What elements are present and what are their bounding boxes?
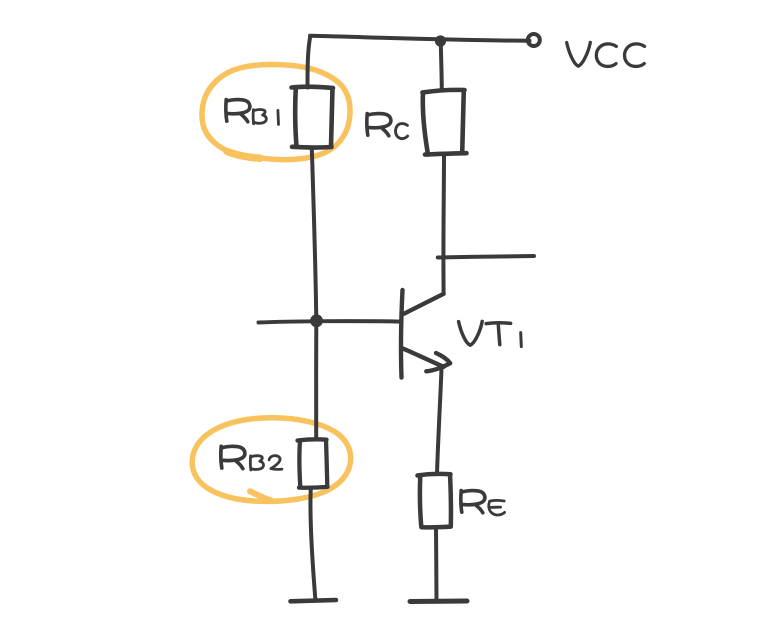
ground (left): [291, 600, 337, 601]
label VCC: [567, 42, 645, 66]
label VT1: [459, 321, 522, 346]
VCC terminal: [528, 34, 540, 46]
wire RB2 to ground: [310, 488, 315, 599]
wire RC to collector: [441, 156, 446, 294]
wire top-left drop to RB1: [308, 36, 311, 88]
wire base horizontal: [259, 321, 401, 322]
highlight loop around RB1: [202, 65, 350, 160]
transistor VT1: [401, 290, 450, 378]
resistor RE: [418, 474, 451, 527]
label RE: [461, 491, 505, 516]
node VCC junction: [435, 35, 446, 46]
wire emitter down to RE: [437, 369, 442, 474]
wire RE to ground: [434, 528, 439, 601]
node base junction: [310, 314, 323, 327]
label RB2: [221, 446, 282, 470]
label RB1: [226, 100, 279, 125]
highlight loop around RB2: [192, 418, 351, 502]
wire RB1 to base node: [312, 149, 317, 321]
wire collector tap to the right: [438, 256, 534, 258]
resistor RB2: [298, 439, 328, 487]
resistor RC: [423, 90, 467, 155]
ground (right): [410, 599, 467, 605]
wire top rail: [310, 36, 530, 41]
resistor RB1: [292, 87, 334, 148]
label RC: [367, 114, 408, 139]
wire VCC junction down to RC: [441, 44, 442, 90]
wire base node down to RB2: [314, 321, 318, 439]
